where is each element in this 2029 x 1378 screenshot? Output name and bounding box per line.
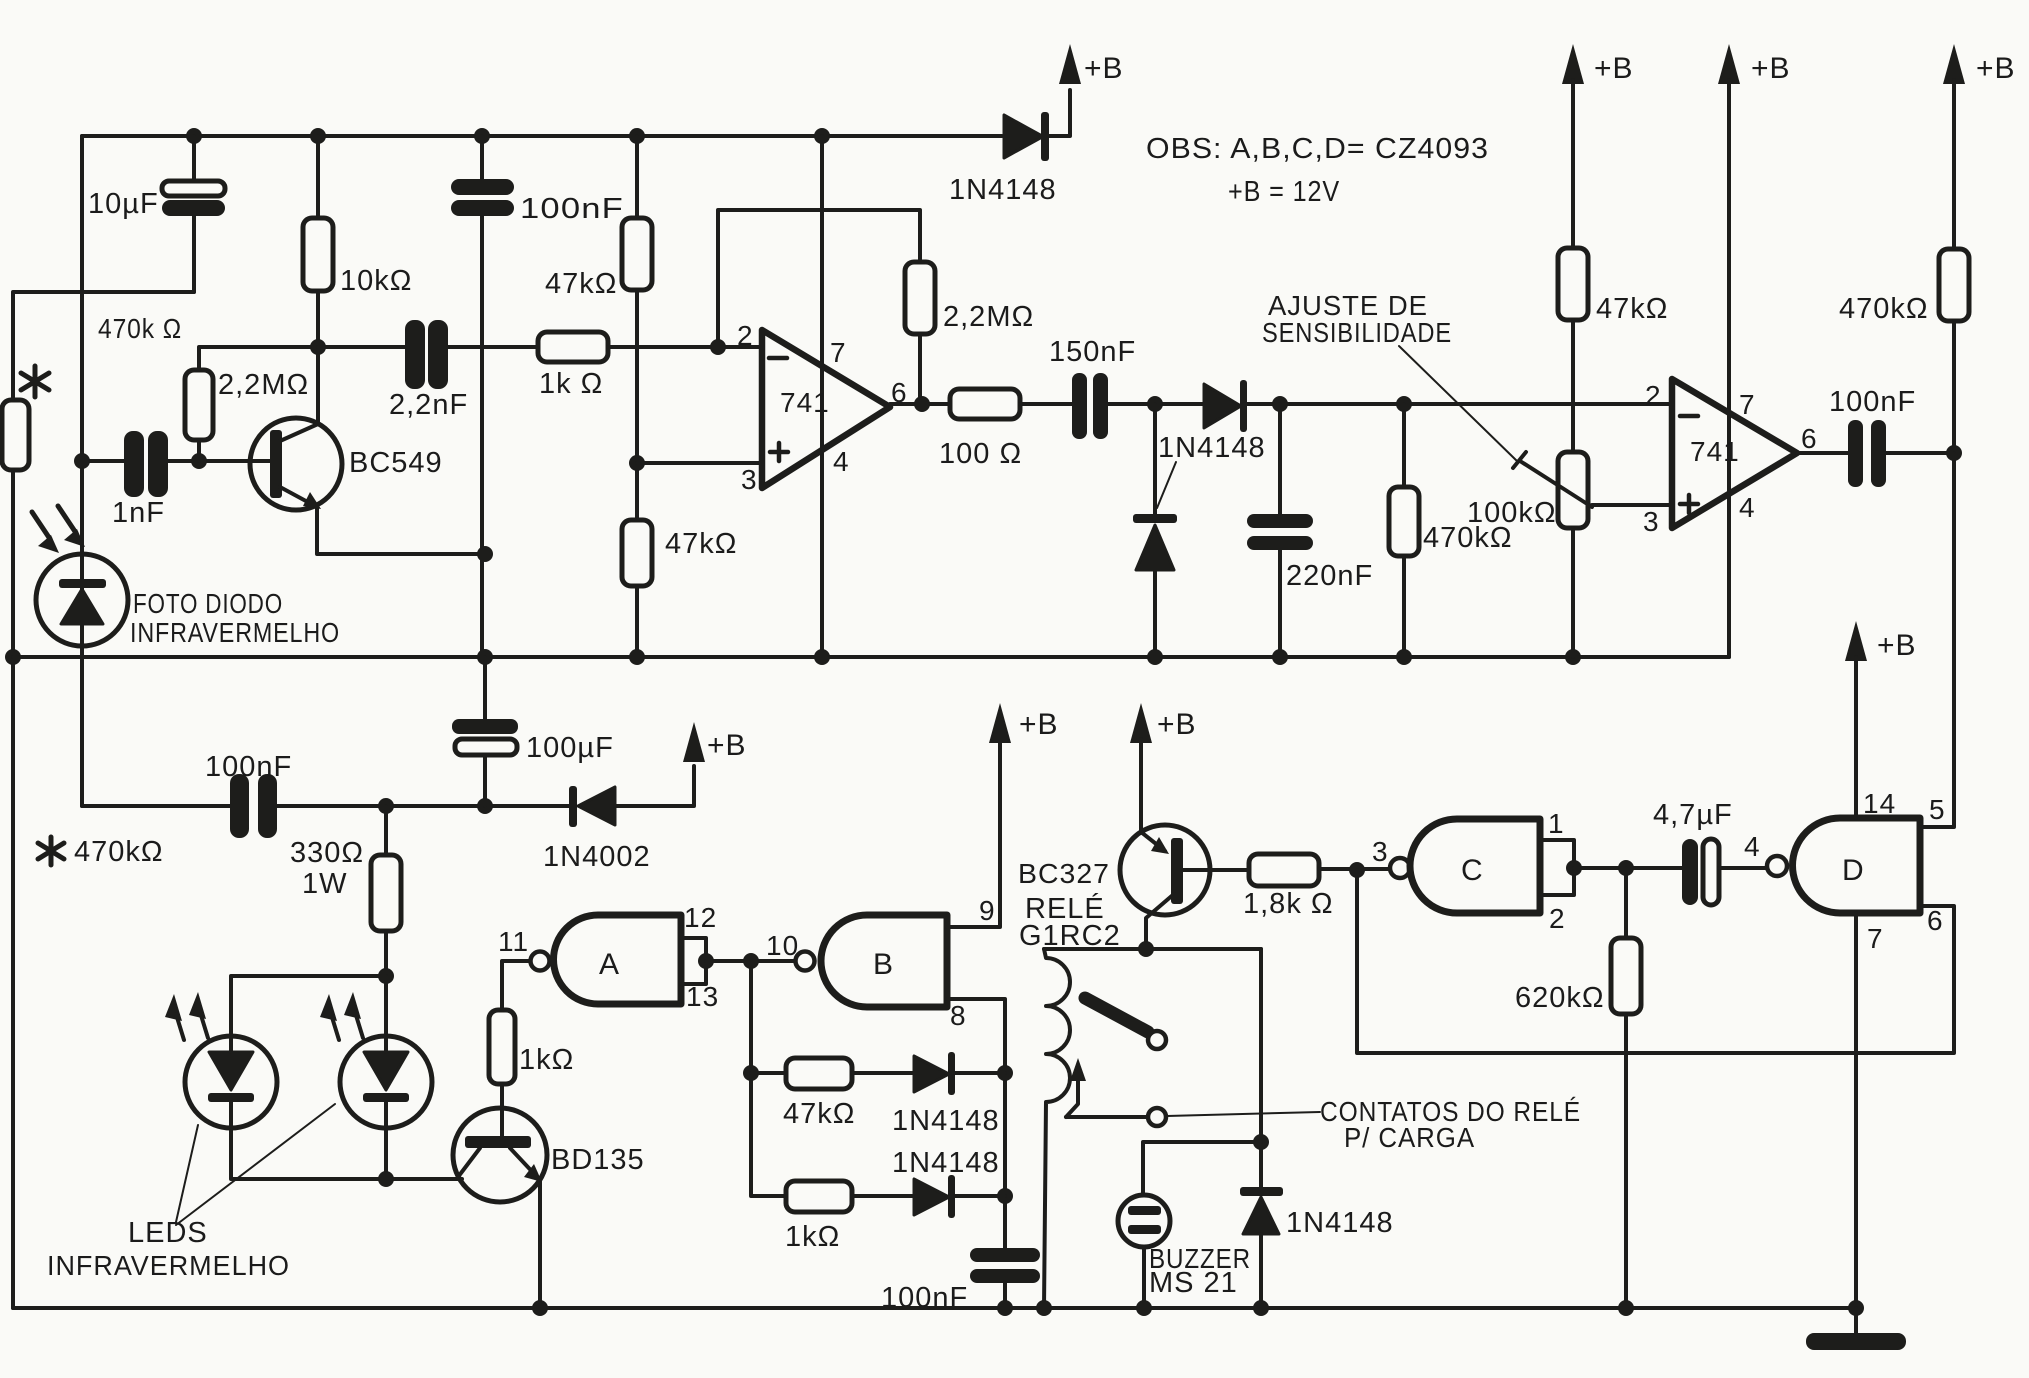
node emitter-100nF line: [477, 546, 493, 562]
svg-text:4,7µF: 4,7µF: [1653, 799, 1733, 831]
svg-text:1W: 1W: [302, 868, 348, 900]
resistor R14 47k (osc): [786, 1058, 852, 1089]
wire gate D pin7 to ground: [1854, 913, 1858, 1308]
relay K1 coil: [1044, 947, 1261, 951]
capacitor C7 100nF (op2 output): [1848, 420, 1863, 487]
resistor R7 2,2M feedback: [905, 262, 935, 334]
svg-text:470kΩ: 470kΩ: [1839, 293, 1929, 325]
svg-text:6: 6: [1801, 423, 1818, 454]
svg-text:470k Ω: 470k Ω: [98, 313, 182, 344]
node rail-47k: [629, 128, 645, 144]
transistor Q3 BC327: [1120, 825, 1210, 915]
wire base coupling: [82, 459, 271, 463]
wire feedback loop op1: [718, 210, 920, 404]
buzzer BZ1 MS21: [1143, 1142, 1261, 1308]
svg-text:MS 21: MS 21: [1149, 1267, 1238, 1299]
wire gate B pin8 down: [947, 999, 1005, 1248]
svg-text:BD135: BD135: [551, 1144, 645, 1176]
resistor R5 47k (upper): [635, 136, 639, 463]
svg-text:10: 10: [766, 930, 799, 961]
node rail-10uF: [186, 128, 202, 144]
svg-text:47kΩ: 47kΩ: [783, 1098, 855, 1130]
svg-text:1N4148: 1N4148: [892, 1105, 1000, 1137]
diode D7 1N4148 (flyback): [1240, 1187, 1283, 1196]
svg-text:4: 4: [833, 446, 850, 477]
diode D4 1N4002: [569, 786, 577, 827]
svg-text:D: D: [1842, 854, 1865, 887]
svg-text:2,2nF: 2,2nF: [389, 389, 468, 421]
svg-text:4: 4: [1739, 492, 1756, 523]
resistor R4 1k: [538, 332, 608, 362]
relay armature arrow: [1066, 1068, 1078, 1117]
power +B arrow (BC327 emitter): [1130, 703, 1152, 743]
svg-text:11: 11: [498, 926, 529, 957]
resistor R11 470k: [1939, 249, 1969, 321]
svg-text:+B: +B: [1594, 52, 1634, 85]
svg-text:150nF: 150nF: [1049, 336, 1136, 368]
svg-text:14: 14: [1863, 788, 1896, 819]
wire node to gate D pin5: [1920, 453, 1954, 827]
diode D6 1N4148 (osc): [914, 1179, 949, 1215]
resistor R15 1k (osc): [786, 1181, 852, 1212]
svg-text:+B: +B: [1751, 52, 1791, 85]
svg-text:+B: +B: [1157, 708, 1197, 741]
resistor R13 1k (base): [489, 1010, 515, 1084]
power +B arrow (top, after D1): [1059, 44, 1081, 84]
capacitor C11 4,7uF: [1682, 839, 1698, 905]
svg-text:B: B: [873, 948, 894, 981]
transistor Q2 BD135: [453, 1108, 547, 1202]
svg-text:100nF: 100nF: [205, 751, 292, 783]
svg-text:FOTO DIODO: FOTO DIODO: [133, 588, 283, 619]
nand gate B (CZ4093): [796, 952, 815, 971]
svg-text:7: 7: [1867, 923, 1884, 954]
resistor R* (470k, see note): [2, 400, 29, 470]
nand gate D (CZ4093): [1767, 856, 1787, 876]
capacitor C2 1nF: [124, 431, 144, 497]
svg-text:+B: +B: [1019, 708, 1059, 741]
wire bottom ground rail: [13, 1306, 1856, 1310]
power +B arrow (op2 supply): [1718, 44, 1740, 84]
wire gate B pin9 to +B: [947, 741, 1000, 927]
potentiometer P1 100k: [1558, 452, 1588, 528]
node rail-100nF: [474, 128, 490, 144]
relay switch arm: [1085, 998, 1148, 1032]
nand gate A (CZ4093): [531, 952, 550, 971]
svg-text:6: 6: [1927, 905, 1944, 936]
svg-text:A: A: [599, 948, 620, 981]
diode D2 1N4148 (series): [1204, 384, 1241, 428]
photo diode D8 (foto diodo infravermelho): [36, 554, 128, 646]
svg-text:10kΩ: 10kΩ: [340, 265, 412, 297]
svg-text:P/ CARGA: P/ CARGA: [1344, 1122, 1475, 1153]
svg-text:1N4148: 1N4148: [949, 174, 1057, 206]
svg-text:LEDS: LEDS: [128, 1217, 208, 1249]
svg-text:47kΩ: 47kΩ: [545, 268, 617, 300]
wire signal to 1k: [318, 345, 538, 349]
svg-text:9: 9: [979, 895, 996, 926]
svg-text:SENSIBILIDADE: SENSIBILIDADE: [1262, 317, 1452, 348]
svg-text:7: 7: [1739, 389, 1756, 420]
node left rail junction: [5, 649, 21, 665]
svg-text:INFRAVERMELHO: INFRAVERMELHO: [47, 1250, 290, 1281]
transistor Q1 BC549: [250, 418, 342, 510]
svg-text:2: 2: [1549, 903, 1566, 934]
svg-text:12: 12: [684, 902, 717, 933]
svg-text:1N4148: 1N4148: [892, 1147, 1000, 1179]
svg-text:3: 3: [741, 464, 758, 495]
resistor R3 10k: [316, 136, 320, 347]
svg-text:220nF: 220nF: [1286, 560, 1373, 592]
svg-text:+B: +B: [1084, 52, 1124, 85]
power +B arrow (LED driver supply): [683, 722, 705, 762]
svg-text:C: C: [1461, 854, 1484, 887]
svg-text:620kΩ: 620kΩ: [1515, 982, 1605, 1014]
svg-text:100 Ω: 100 Ω: [939, 438, 1022, 470]
wire relay right side: [1259, 949, 1263, 1188]
LED2 light arrows: [320, 994, 337, 1021]
svg-text:100nF: 100nF: [1829, 386, 1916, 418]
light arrows into photodiode: [32, 512, 50, 539]
svg-text:2: 2: [1645, 380, 1662, 411]
svg-text:3: 3: [1372, 836, 1389, 867]
resistor R9 470k: [1402, 404, 1406, 657]
ground symbol: [1854, 1308, 1858, 1333]
svg-text:2: 2: [737, 320, 754, 351]
wire LED branch: [231, 976, 462, 1179]
node rail-pin7: [814, 128, 830, 144]
resistor R2 2,2M: [199, 347, 318, 461]
svg-text:741: 741: [780, 387, 830, 418]
svg-text:100µF: 100µF: [526, 732, 614, 764]
resistor R17 620k: [1624, 868, 1628, 1308]
svg-text:+B = 12V: +B = 12V: [1228, 176, 1340, 208]
svg-text:+B: +B: [1976, 52, 2016, 85]
capacitor C1 10uF: [192, 136, 196, 292]
nand gate C (CZ4093): [1390, 858, 1410, 878]
svg-text:4: 4: [1744, 831, 1761, 862]
op-amp U2 741: [1672, 379, 1797, 528]
capacitor C10 100nF (osc): [970, 1248, 1040, 1262]
node rail-10k: [310, 128, 326, 144]
wire op1 supply line pin7/pin4: [820, 136, 824, 657]
power +B arrow (gate D pin14): [1845, 621, 1867, 661]
svg-text:OBS: A,B,C,D= CZ4093: OBS: A,B,C,D= CZ4093: [1146, 133, 1489, 165]
LED1 light arrows: [165, 994, 182, 1021]
svg-text:5: 5: [1929, 794, 1946, 825]
wire: rail left drop to photodiode line: [80, 136, 84, 806]
capacitor C3 100nF (top): [480, 136, 484, 657]
power +B arrow (gate B pin9): [989, 703, 1011, 743]
wire gate D pin6 feedback to gate C output: [1357, 870, 1954, 1053]
svg-text:1N4148: 1N4148: [1158, 432, 1266, 464]
svg-text:1kΩ: 1kΩ: [785, 1221, 840, 1253]
note asterisk 470k: [38, 837, 64, 865]
wire LED supply line y806: [82, 804, 569, 808]
resistor R8 100 Ohm: [950, 389, 1020, 419]
gate A input bracket pins 12,13: [681, 938, 706, 984]
svg-text:1kΩ: 1kΩ: [519, 1044, 574, 1076]
svg-text:2,2MΩ: 2,2MΩ: [218, 369, 309, 401]
wire wiper to pin3: [1592, 503, 1672, 507]
wire op2 output: [1797, 451, 1848, 455]
wire: top supply rail: [82, 134, 1002, 138]
asterisk mark: [21, 366, 49, 397]
capacitor C6 220nF: [1278, 404, 1282, 657]
svg-text:BC549: BC549: [349, 447, 443, 479]
svg-text:100kΩ: 100kΩ: [1467, 497, 1557, 529]
svg-text:1k Ω: 1k Ω: [539, 368, 603, 400]
svg-text:BC327: BC327: [1018, 858, 1110, 889]
op-amp U1 741: [762, 330, 890, 488]
svg-text:+B: +B: [1877, 629, 1917, 662]
svg-text:10µF: 10µF: [88, 188, 159, 220]
svg-text:1N4002: 1N4002: [543, 841, 651, 873]
LED LED2 infravermelho: [340, 1036, 432, 1128]
svg-text:1N4148: 1N4148: [1286, 1207, 1394, 1239]
svg-text:330Ω: 330Ω: [290, 837, 364, 869]
svg-text:47kΩ: 47kΩ: [665, 528, 737, 560]
wire contact to load label: [1167, 1112, 1320, 1116]
svg-text:3: 3: [1643, 506, 1660, 537]
svg-text:7: 7: [830, 337, 847, 368]
resistor R6 47k (lower): [635, 463, 639, 657]
svg-text:2,2MΩ: 2,2MΩ: [943, 301, 1034, 333]
diode D3 1N4148 (vertical clamp): [1153, 404, 1157, 657]
resistor R10 47k: [1558, 248, 1588, 320]
wire 1k to pin2 node: [608, 345, 762, 349]
wire: 10uF bottom to asterisk resistor: [13, 292, 194, 400]
capacitor C4 2,2nF: [405, 320, 425, 389]
wire op1 output: [890, 402, 950, 406]
relay contact: [1148, 1108, 1166, 1126]
svg-text:+B: +B: [707, 729, 747, 762]
svg-text:1,8k Ω: 1,8k Ω: [1243, 888, 1334, 920]
diode D5 1N4148 (osc): [914, 1056, 949, 1092]
wire osc feedback left branch: [751, 961, 786, 1196]
diode 1N4148 D1: [1004, 115, 1043, 158]
svg-text:1nF: 1nF: [112, 497, 165, 529]
svg-text:1: 1: [1548, 808, 1565, 839]
capacitor C5 150nF: [1072, 373, 1087, 439]
svg-text:47kΩ: 47kΩ: [1596, 293, 1668, 325]
capacitor C9 100uF: [483, 657, 487, 806]
resistor R12 330R 1W: [384, 806, 388, 976]
resistor R16 1,8k: [1249, 854, 1319, 886]
LED LED1 infravermelho: [185, 1036, 277, 1128]
power +B arrow (47k sensitivity branch): [1562, 44, 1584, 84]
gate C input bracket pins 1,2: [1540, 840, 1574, 895]
svg-text:470kΩ: 470kΩ: [74, 836, 164, 868]
svg-text:INFRAVERMELHO: INFRAVERMELHO: [130, 617, 340, 648]
wire pin3: [637, 461, 762, 465]
wire bottom rail (top section): [13, 655, 1729, 659]
capacitor C8 100nF (bottom left): [230, 774, 249, 838]
power +B arrow (470k pullup): [1943, 44, 1965, 84]
svg-text:8: 8: [950, 1000, 967, 1031]
svg-text:741: 741: [1690, 436, 1740, 467]
svg-text:100nF: 100nF: [520, 193, 624, 225]
